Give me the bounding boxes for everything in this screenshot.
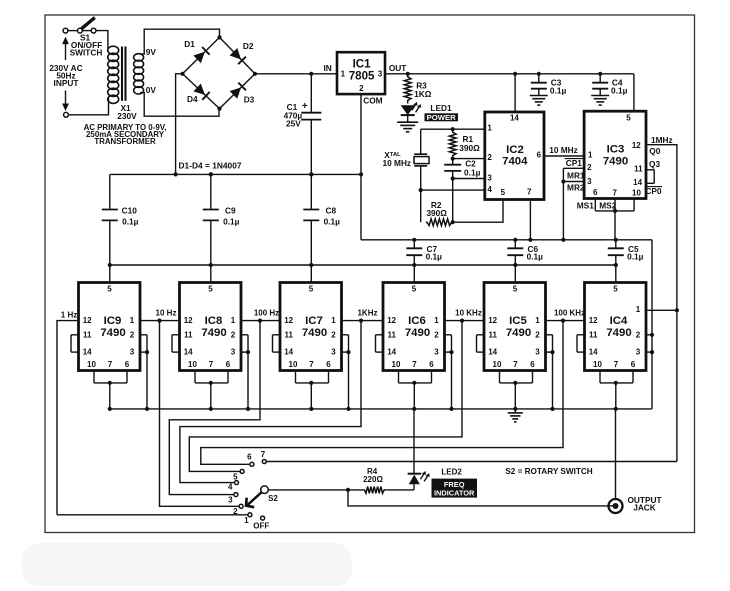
wire ground bus to jack — [615, 409, 617, 498]
wire 100Hz tap to contact 3 — [169, 321, 260, 495]
svg-text:0.1µ: 0.1µ — [122, 217, 139, 227]
diode D4 — [193, 84, 209, 100]
svg-text:7490: 7490 — [506, 327, 531, 339]
node ground bus IC4 pin7 junction — [614, 407, 618, 411]
capacitor C1 470u 25V — [284, 74, 322, 175]
node S2 contact 4 — [228, 481, 239, 492]
node C6 5V junction — [513, 263, 517, 267]
svg-text:IC8: IC8 — [205, 315, 223, 327]
resistor R2 390 — [426, 200, 453, 226]
svg-text:3: 3 — [130, 348, 135, 357]
schematic border frame — [45, 15, 695, 533]
svg-text:3: 3 — [331, 348, 336, 357]
svg-text:LED1: LED1 — [430, 103, 452, 113]
svg-text:3: 3 — [231, 348, 236, 357]
node C10 5V junction — [108, 263, 112, 267]
wire ground bus — [110, 408, 652, 410]
output jack — [609, 499, 623, 513]
svg-text:1KHz: 1KHz — [357, 309, 377, 318]
node C2 pin3 junction — [451, 176, 455, 180]
svg-text:IC4: IC4 — [610, 315, 628, 327]
node C2 R2 junction — [451, 220, 455, 224]
svg-text:25V: 25V — [286, 119, 301, 129]
wire 5V rail from IC1 OUT — [385, 73, 634, 75]
svg-text:10 KHz: 10 KHz — [455, 309, 482, 318]
svg-text:INPUT: INPUT — [54, 78, 79, 88]
svg-text:OFF: OFF — [253, 522, 269, 531]
wire IC4 pin5 stub — [615, 265, 617, 283]
svg-text:12: 12 — [632, 141, 641, 150]
wire IC2 pin4 — [421, 189, 485, 191]
svg-text:Q0: Q0 — [649, 146, 660, 156]
decade counter IC8 7490 — [180, 283, 242, 371]
wire IC7 pins 10-7-6 bracket — [296, 371, 329, 409]
svg-text:IC2: IC2 — [506, 144, 524, 156]
svg-text:10 MHz: 10 MHz — [549, 145, 578, 155]
svg-text:14: 14 — [387, 348, 396, 357]
wire primary bottom lead to input — [69, 98, 109, 115]
svg-text:6: 6 — [530, 360, 535, 369]
node C9 5V junction — [209, 263, 213, 267]
svg-text:5: 5 — [501, 188, 506, 197]
wire IC3 pin12 1MHz output — [646, 145, 677, 462]
diode D1 — [193, 47, 209, 63]
svg-text:5: 5 — [107, 284, 112, 293]
wire 1KHz link — [342, 320, 384, 322]
svg-text:1KΩ: 1KΩ — [414, 89, 432, 99]
wire 1Hz to contact 1 — [57, 514, 248, 516]
svg-text:11: 11 — [387, 330, 396, 339]
svg-text:MR2: MR2 — [567, 183, 585, 193]
transformer X1 core — [122, 47, 126, 101]
svg-text:14: 14 — [184, 348, 193, 357]
svg-text:SWITCH: SWITCH — [70, 48, 103, 58]
svg-text:5: 5 — [208, 284, 213, 293]
wire IC7 pins 2-3 bracket to ground bus — [342, 335, 349, 409]
node ground bus IC7 bracket junction — [346, 407, 350, 411]
node ground bus IC9 pin7 junction — [108, 407, 112, 411]
svg-text:390Ω: 390Ω — [426, 208, 447, 218]
crystal XTAL 10MHz — [383, 129, 429, 222]
wire S1 to transformer primary — [96, 31, 108, 49]
wire IC2 pin1 — [421, 128, 485, 130]
svg-text:7: 7 — [612, 188, 617, 197]
LED2 freq indicator — [408, 409, 430, 490]
capacitor C4 0.1u — [592, 74, 627, 96]
svg-text:2: 2 — [487, 153, 492, 162]
svg-text:1: 1 — [130, 316, 135, 325]
svg-text:0.1µ: 0.1µ — [223, 217, 240, 227]
svg-text:0.1µ: 0.1µ — [627, 252, 644, 262]
wire S2 rotor to R4 — [268, 489, 363, 491]
svg-text:1: 1 — [331, 316, 336, 325]
svg-text:0.1µ: 0.1µ — [611, 86, 628, 96]
wire bridge DC minus to ground line — [176, 74, 183, 175]
svg-text:10: 10 — [632, 188, 641, 197]
svg-text:14: 14 — [633, 178, 642, 187]
svg-text:7: 7 — [209, 360, 214, 369]
svg-text:3: 3 — [378, 69, 383, 78]
capacitor C10 0.1u — [102, 174, 139, 265]
svg-text:JACK: JACK — [633, 502, 656, 512]
svg-text:3: 3 — [636, 348, 641, 357]
wire R4 to LED2 — [385, 489, 414, 491]
node IC3 MS junction — [613, 209, 617, 213]
svg-text:5: 5 — [613, 284, 618, 293]
capacitor C2 0.1u — [444, 159, 480, 223]
svg-text:7490: 7490 — [100, 327, 125, 339]
svg-text:4: 4 — [487, 185, 492, 194]
svg-text:7404: 7404 — [502, 155, 528, 167]
wire R2 to IC2 pin5 — [451, 200, 503, 223]
wire IC2 pin3 — [453, 178, 485, 180]
wire IC2 pin7 to ground line — [529, 200, 531, 240]
node ground bus IC8 bracket junction — [246, 407, 250, 411]
wire IC6 pins 11-14 bracket — [376, 335, 384, 352]
ground symbol C4 — [591, 95, 609, 97]
svg-text:INDICATOR: INDICATOR — [434, 488, 475, 497]
node ground bus IC6 bracket junction — [449, 407, 453, 411]
node bridge left corner — [180, 72, 184, 76]
node C5 5V junction — [614, 263, 618, 267]
capacitor C7 0.1u — [406, 240, 442, 265]
wire IC5 pin5 stub — [514, 265, 516, 283]
node crystal pin4 junction — [419, 188, 423, 192]
wire IC6 pin5 stub — [413, 265, 415, 283]
hex inverter IC2 7404 — [485, 112, 544, 200]
svg-text:7: 7 — [412, 360, 417, 369]
node 10 Hz tap — [157, 319, 161, 323]
svg-text:D3: D3 — [244, 95, 255, 105]
node C5 top junction — [614, 238, 618, 242]
svg-text:390Ω: 390Ω — [459, 143, 480, 153]
svg-text:7490: 7490 — [201, 327, 226, 339]
node S2 output junction — [346, 488, 350, 492]
node 10 KHz tap — [460, 319, 464, 323]
svg-text:1MHz: 1MHz — [651, 135, 673, 145]
node IC6 pin3 bracket junction — [449, 350, 453, 354]
wire IC3 MR pins — [563, 168, 584, 240]
svg-text:6: 6 — [125, 360, 130, 369]
node IC3 MR junction — [561, 179, 565, 183]
transformer X1 secondary winding — [134, 54, 144, 94]
svg-text:10: 10 — [593, 360, 602, 369]
svg-text:6: 6 — [226, 360, 231, 369]
wire IC9 pins 10-7-6 bracket — [94, 371, 127, 409]
svg-text:230V: 230V — [117, 111, 137, 121]
wire IC8 pins 10-7-6 bracket — [195, 371, 228, 409]
svg-text:6: 6 — [537, 150, 542, 159]
svg-text:S2: S2 — [268, 494, 278, 503]
svg-text:7: 7 — [108, 360, 113, 369]
wire ground drop right — [651, 240, 653, 409]
svg-text:C9: C9 — [225, 206, 236, 216]
svg-text:7490: 7490 — [603, 155, 628, 167]
svg-text:7: 7 — [513, 360, 518, 369]
wire 10MHz IC2 pin6 to IC3 pin1 — [544, 155, 584, 157]
wire 10KHz tap to contact 5 — [189, 321, 462, 472]
resistor R3 — [404, 74, 431, 104]
wire IC8 pins 11-14 bracket — [172, 335, 180, 352]
node IC8 pin3 bracket junction — [246, 350, 250, 354]
svg-text:12: 12 — [284, 316, 293, 325]
regulator IC1 7805 — [337, 52, 385, 94]
svg-text:10: 10 — [493, 360, 502, 369]
svg-text:7: 7 — [261, 450, 266, 459]
svg-text:IC1: IC1 — [353, 57, 372, 70]
svg-text:IC6: IC6 — [408, 315, 426, 327]
node ground-C9 junction — [209, 172, 213, 176]
svg-text:1 Hz: 1 Hz — [61, 310, 77, 319]
svg-text:POWER: POWER — [427, 113, 456, 122]
svg-text:1: 1 — [434, 316, 439, 325]
node C8 top junction — [309, 172, 313, 176]
wire IC4 pins 10-7-6 bracket — [600, 371, 633, 409]
node ground bus IC9 bracket junction — [145, 407, 149, 411]
svg-text:1: 1 — [487, 124, 492, 133]
node S2 contact 2 — [233, 504, 243, 516]
svg-text:MS1: MS1 — [577, 201, 594, 211]
svg-text:2: 2 — [231, 330, 236, 339]
svg-text:COM: COM — [363, 95, 382, 105]
svg-text:1: 1 — [231, 316, 236, 325]
ground symbol on bus — [508, 409, 523, 422]
svg-text:0.1µ: 0.1µ — [464, 167, 481, 177]
svg-text:7: 7 — [309, 360, 314, 369]
decade counter IC9 7490 — [79, 283, 141, 371]
diode D2 — [230, 48, 246, 64]
wire 5V line for counters — [110, 264, 616, 266]
diode D3 — [230, 83, 246, 99]
node IC7 pin3 bracket junction — [346, 350, 350, 354]
node C4 rail junction — [598, 72, 602, 76]
svg-text:14: 14 — [510, 113, 519, 122]
svg-text:9V: 9V — [146, 47, 157, 57]
node S2 contact 6 — [247, 453, 254, 467]
node IC2 pin14 rail junction — [513, 72, 517, 76]
svg-text:CP0: CP0 — [645, 186, 662, 196]
capacitor C8 0.1u — [303, 174, 340, 265]
svg-text:10: 10 — [87, 360, 96, 369]
svg-text:IC5: IC5 — [509, 315, 527, 327]
svg-text:12: 12 — [387, 316, 396, 325]
svg-text:LED2: LED2 — [441, 467, 462, 476]
svg-text:4: 4 — [228, 482, 233, 491]
svg-text:7: 7 — [614, 360, 619, 369]
svg-text:2: 2 — [233, 507, 238, 516]
svg-text:6: 6 — [593, 188, 598, 197]
svg-text:10 Hz: 10 Hz — [156, 309, 177, 318]
resistor R1 390 — [449, 129, 480, 158]
svg-text:100 KHz: 100 KHz — [554, 309, 585, 318]
label CP0 overline — [645, 186, 662, 196]
label CP1 overline — [565, 158, 584, 168]
svg-text:2: 2 — [130, 330, 135, 339]
svg-text:7805: 7805 — [349, 70, 375, 83]
node IC6 bottom bracket junction — [412, 381, 416, 385]
node IC4 pin2 junction — [650, 333, 654, 337]
svg-text:7: 7 — [527, 187, 532, 196]
wire IC9 pins 11-14 bracket — [71, 335, 79, 352]
wire IC5 pins 11-14 bracket — [477, 335, 485, 352]
svg-text:Q3: Q3 — [649, 159, 660, 169]
wire 100KHz tap to contact 6 — [201, 321, 563, 465]
POWER label box — [425, 113, 459, 122]
node bridge bottom corner — [217, 107, 221, 111]
node R3 rail junction — [406, 72, 410, 76]
svg-text:10: 10 — [289, 360, 298, 369]
node ground bus IC5 pin7 junction — [513, 407, 517, 411]
svg-text:S2 = ROTARY SWITCH: S2 = ROTARY SWITCH — [505, 467, 593, 476]
node C7 top junction — [412, 238, 416, 242]
svg-text:OUT: OUT — [389, 63, 407, 73]
switch S2 rotor — [246, 486, 278, 507]
switch S1 on/off — [68, 18, 102, 58]
wire IC3 Q3-CP0 link — [646, 170, 654, 184]
node ground-bridge junction — [174, 172, 178, 176]
wire 100 KHz link — [546, 320, 585, 322]
svg-text:0.1µ: 0.1µ — [550, 86, 567, 96]
node bridge right corner — [253, 72, 257, 76]
svg-text:2: 2 — [636, 330, 641, 339]
node C6 top junction — [513, 238, 517, 242]
svg-text:5: 5 — [626, 113, 631, 122]
capacitor C6 0.1u — [507, 240, 543, 265]
capacitor C9 0.1u — [203, 174, 240, 265]
svg-text:7490: 7490 — [405, 327, 430, 339]
wire secondary 9V to bridge top — [140, 29, 220, 54]
svg-text:2: 2 — [434, 330, 439, 339]
svg-text:C10: C10 — [122, 206, 138, 216]
wire IC3 pin5 riser — [633, 74, 635, 111]
svg-text:MS2: MS2 — [599, 201, 616, 211]
svg-text:IC7: IC7 — [305, 315, 323, 327]
svg-text:5: 5 — [412, 284, 417, 293]
resistor R4 220 — [363, 467, 385, 493]
node ground-COM junction — [359, 172, 363, 176]
svg-text:6: 6 — [631, 360, 636, 369]
svg-text:11: 11 — [488, 330, 497, 339]
wire IC7 pins 11-14 bracket — [273, 335, 281, 352]
svg-text:D4: D4 — [187, 94, 198, 104]
svg-text:6: 6 — [247, 453, 252, 462]
node S2 contact 1 — [244, 513, 252, 525]
svg-text:3: 3 — [587, 177, 592, 186]
svg-text:2: 2 — [359, 84, 364, 93]
ground symbol C3 — [530, 95, 548, 97]
svg-text:12: 12 — [589, 316, 598, 325]
svg-text:14: 14 — [284, 348, 293, 357]
decade counter IC4 7490 — [585, 283, 647, 371]
wire IC4 pin3 stub — [646, 351, 652, 353]
node IC4 pin3 junction — [650, 350, 654, 354]
svg-text:5: 5 — [513, 284, 518, 293]
node IC7 bottom bracket junction — [309, 381, 313, 385]
svg-text:3: 3 — [535, 348, 540, 357]
wire IC4 pin1 to 1MHz line — [646, 309, 677, 311]
svg-text:1: 1 — [636, 305, 641, 314]
node 100 KHz tap — [561, 319, 565, 323]
svg-text:7490: 7490 — [606, 327, 631, 339]
svg-text:14: 14 — [83, 348, 92, 357]
svg-text:6: 6 — [429, 360, 434, 369]
svg-text:TRANSFORMER: TRANSFORMER — [94, 137, 156, 146]
wire IC6 pins 10-7-6 bracket — [399, 371, 432, 409]
svg-text:6: 6 — [326, 360, 331, 369]
node C8 5V junction — [309, 263, 313, 267]
svg-text:11: 11 — [589, 330, 598, 339]
wire bridge DC plus to IC1 — [255, 73, 337, 75]
capacitor C5 0.1u — [608, 240, 644, 265]
transformer X1 labels — [84, 103, 167, 146]
svg-text:D1: D1 — [184, 39, 195, 49]
node S2 contact 5 — [233, 469, 244, 481]
transformer X1 primary winding — [108, 46, 119, 103]
svg-text:100 Hz: 100 Hz — [254, 309, 279, 318]
svg-text:11: 11 — [83, 330, 92, 339]
svg-text:7490: 7490 — [302, 327, 327, 339]
node 1KHz tap — [359, 319, 363, 323]
decade counter IC7 7490 — [280, 283, 342, 371]
node ground-C1-C8 junction — [309, 172, 313, 176]
node R1 top junction — [451, 127, 455, 131]
svg-text:11: 11 — [634, 164, 643, 173]
wire 100 Hz link — [241, 320, 280, 322]
svg-text:11: 11 — [284, 330, 293, 339]
wire 1Hz output from IC9 pin12 — [57, 321, 79, 515]
svg-text:IN: IN — [323, 63, 331, 73]
wire ground line upper — [110, 173, 361, 175]
node C3 rail junction — [537, 72, 541, 76]
node 100 Hz tap — [258, 319, 262, 323]
svg-text:11: 11 — [184, 330, 193, 339]
svg-text:12: 12 — [184, 316, 193, 325]
node IC5 bottom bracket junction — [513, 381, 517, 385]
svg-text:0.1µ: 0.1µ — [324, 217, 341, 227]
node R1 bottom junction — [451, 157, 455, 161]
decade counter IC3 7490 — [584, 111, 646, 198]
svg-text:3: 3 — [228, 496, 233, 505]
decade counter IC6 7490 — [383, 283, 445, 371]
svg-text:220Ω: 220Ω — [363, 475, 383, 484]
svg-text:IC3: IC3 — [607, 144, 625, 156]
capacitor C3 0.1u — [531, 74, 567, 96]
svg-text:C8: C8 — [325, 206, 336, 216]
svg-text:5: 5 — [309, 284, 314, 293]
svg-text:10 MHz: 10 MHz — [383, 158, 412, 168]
svg-text:10: 10 — [392, 360, 401, 369]
wire IC3 MS pins box — [595, 199, 634, 240]
node S2 contact OFF — [253, 516, 269, 531]
wire IC9 pin5 stub — [109, 265, 111, 283]
wire IC6 pins 2-3 bracket to ground bus — [445, 335, 452, 409]
svg-text:14: 14 — [589, 348, 598, 357]
svg-text:D1-D4 = 1N4007: D1-D4 = 1N4007 — [178, 161, 241, 171]
node IC4 bottom bracket junction — [614, 381, 618, 385]
wire 1KHz tap to contact 4 — [180, 321, 361, 483]
svg-text:14: 14 — [488, 348, 497, 357]
svg-text:12: 12 — [488, 316, 497, 325]
node IC5 pin3 bracket junction — [550, 350, 554, 354]
wire 10 Hz link — [140, 320, 180, 322]
svg-text:2: 2 — [331, 330, 336, 339]
node IC9 bottom bracket junction — [108, 381, 112, 385]
bridge rectifier wires — [183, 37, 256, 108]
node IC2 pin7 junction — [528, 238, 532, 242]
wire IC2 pin2 — [453, 158, 485, 160]
LED1 power indicator — [401, 102, 422, 122]
node AC input top terminal — [63, 28, 68, 33]
